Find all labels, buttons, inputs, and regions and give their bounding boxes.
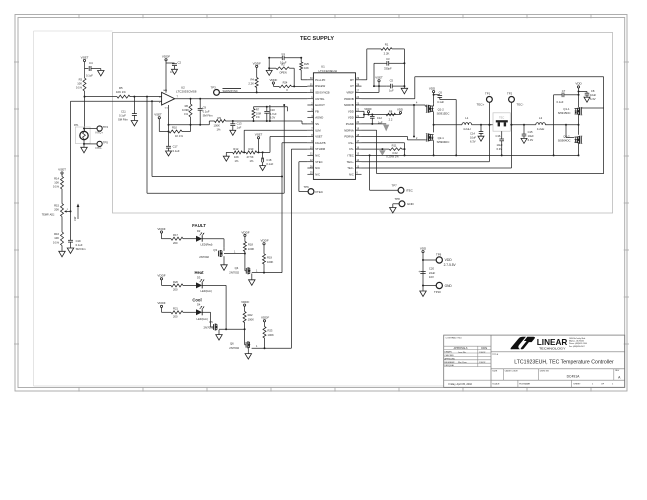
svg-text:200: 200 [173,315,178,319]
svg-text:N/C: N/C [315,166,320,170]
wire feedback node [169,124,210,126]
wire D3 to Q5 node [202,284,226,286]
svg-text:LED(Grn): LED(Grn) [201,289,213,293]
svg-text:C17: C17 [173,144,178,148]
resistor R11 [382,148,389,150]
svg-text:6.3V: 6.3V [590,97,596,101]
ground for C11 [131,121,138,127]
Linear Technology logo mark [511,337,526,350]
svg-text:SCALE: SCALE [492,382,500,385]
wire feedback run lower [146,97,148,194]
resistor R19 [263,254,266,264]
capacitor C7 [554,94,563,96]
svg-text:TEC: TEC [499,115,504,119]
svg-text:VDD: VDD [348,116,354,120]
label SHDN/SYNC [223,88,242,90]
svg-text:FAULTB: FAULTB [315,141,325,145]
CW arrow [77,206,79,220]
svg-text:TP4: TP4 [103,125,109,129]
svg-text:2.2: 2.2 [389,118,393,122]
svg-text:C5: C5 [390,79,394,83]
svg-text:N/C: N/C [315,154,320,158]
svg-text:ENGINEER: ENGINEER [445,362,456,364]
svg-text:+: + [418,270,420,274]
junction R6 top [190,98,192,100]
ground for C20 [420,291,427,297]
capacitor C13 [232,120,234,122]
svg-text:RSLEW: RSLEW [315,84,325,88]
page frame inner border [18,18,625,388]
svg-text:C14: C14 [470,131,475,135]
diode D3 LED green [196,282,202,288]
svg-text:TP6: TP6 [304,185,310,189]
svg-text:6.3V: 6.3V [528,138,534,142]
svg-text:C4: C4 [89,61,93,65]
svg-text:0.1uF: 0.1uF [86,73,93,77]
svg-text:Milpitas, CA 95035: Milpitas, CA 95035 [569,340,584,343]
svg-text:VDDF: VDDF [241,300,249,304]
wire TEC- line [362,167,512,169]
svg-text:10uF: 10uF [590,93,596,97]
svg-text:DC491A: DC491A [567,375,581,379]
power VDDF (U1) [367,111,369,113]
svg-text:2N7002: 2N7002 [199,255,209,259]
svg-text:VDD: VDD [420,246,427,250]
svg-text:C18: C18 [266,158,271,162]
svg-text:OPEN: OPEN [279,70,286,74]
svg-text:TP7: TP7 [392,184,398,188]
transistor Q1-1 [580,108,582,115]
wire Q5 source [218,330,220,335]
test point TP6 [308,189,314,195]
svg-text:LED(Red): LED(Red) [201,242,213,246]
svg-text:R11: R11 [392,144,397,148]
wire RT1 bottom / TP5 [83,140,85,144]
svg-text:VSET: VSET [154,112,162,116]
wire Q4 gate riser [244,254,246,271]
svg-text:C10: C10 [270,108,275,112]
svg-text:ITEC: ITEC [347,154,353,158]
svg-text:TP1: TP1 [485,92,491,96]
wire Q6 drain node [252,347,292,349]
wire C6 return [455,100,457,156]
svg-text:SM Film: SM Film [203,113,214,117]
svg-text:SHEET: SHEET [573,383,581,385]
svg-text:R10: R10 [172,126,177,130]
svg-text:TECHNOLOGY: TECHNOLOGY [539,347,566,351]
ground for C18 [260,166,266,171]
svg-text:C6: C6 [439,90,443,94]
node A junction [84,96,86,98]
op-amp U2 [162,92,175,105]
ground for C8 [584,97,590,102]
svg-text:0.1uF: 0.1uF [76,243,83,247]
svg-text:10K 1%: 10K 1% [116,90,126,94]
transistor Q3 [217,251,219,257]
ground for C15 [521,138,527,143]
resistor R8 [386,113,395,116]
wire R21 to D4 [183,311,196,313]
wire switch node left [433,112,435,132]
ground for RT1 [83,144,85,147]
wire Q6 source [247,348,249,354]
svg-text:TEMP. ADJ.: TEMP. ADJ. [42,213,56,216]
ground for Q6 [245,354,252,360]
wire ILIM riser [243,130,245,152]
capacitor C19 [68,239,73,241]
svg-text:1K 1%: 1K 1% [175,134,184,138]
transistor Q4 [245,268,247,274]
transistor Q2-2 [580,137,582,144]
wire RT1 to node A [84,97,86,132]
svg-text:10uF: 10uF [470,135,476,139]
ground for C17 [166,151,172,156]
ground for C13 [230,130,236,135]
svg-text:R2: R2 [281,62,285,66]
TEC module box [493,113,510,131]
svg-text:0.1uF: 0.1uF [437,100,444,104]
wire R1/C3/C5 ground leg [403,49,405,86]
svg-text:VSET: VSET [375,76,383,80]
diode D2 LED red [196,236,202,242]
wire VSET to R3 [84,62,86,78]
svg-text:D2: D2 [197,229,201,233]
svg-text:VDDF: VDDF [157,274,165,278]
wire R2 to R24 node [289,67,294,69]
wire R7/C10 top to FB [254,106,288,108]
ground for C5 [401,88,408,94]
capacitor C16 [501,131,503,139]
svg-text:VDD: VDD [445,258,453,262]
capacitor C10 [266,120,268,122]
svg-text:C15: C15 [528,130,533,134]
svg-text:TP9: TP9 [436,252,442,256]
wire PGND [362,123,387,125]
wire C7 return [553,95,555,156]
svg-text:RT: RT [350,78,354,82]
svg-text:D3: D3 [197,276,201,280]
resistor R25 [300,62,303,70]
test point TP3 [214,90,220,96]
resistor R4 [255,78,258,88]
svg-text:TP5: TP5 [103,141,109,145]
svg-text:LTC2053CMS8: LTC2053CMS8 [176,90,197,94]
svg-text:100K: 100K [268,333,274,337]
svg-text:CS+: CS+ [348,141,354,145]
svg-text:R25: R25 [304,62,309,66]
wire NDRVB to Q1-2 gate [362,104,426,106]
wire RT pin to R1 [362,79,367,81]
svg-text:NTC-: NTC- [96,146,103,150]
capacitor C9 [199,99,201,109]
svg-text:200: 200 [173,288,178,292]
schematic sheet faint border [33,31,35,386]
capacitor C11 [133,97,135,114]
svg-text:TP8: TP8 [395,197,401,201]
svg-text:Cool: Cool [192,298,201,303]
svg-text:VSET: VSET [81,55,89,59]
svg-text:10M: 10M [256,111,261,115]
svg-text:1/10/02: 1/10/02 [479,362,485,364]
svg-text:VTHRM: VTHRM [315,147,326,151]
svg-text:4.2uH: 4.2uH [463,127,470,131]
svg-text:C3: C3 [386,57,390,61]
ground for C4 [98,71,105,77]
svg-text:R22: R22 [248,313,253,317]
svg-text:VDDF: VDDF [261,239,269,243]
svg-text:TEC+: TEC+ [477,103,485,107]
svg-text:0.02: 0.02 [392,151,398,155]
wire PDRVB top route [362,98,415,100]
transistor Q2-1 [426,134,428,141]
svg-text:VDDF: VDDF [261,316,269,320]
wire VSET to R14 [61,174,63,176]
svg-text:R17: R17 [173,233,178,237]
wire R20 to D3 [183,284,196,286]
svg-text:0.1%: 0.1% [76,85,83,89]
wire TP3 to SD/SYNCB pin [219,91,307,93]
svg-text:R24: R24 [283,80,288,84]
wire L1 to TEC [472,124,493,126]
svg-text:APPROVED: APPROVED [445,357,456,360]
svg-text:Si5904DC: Si5904DC [437,140,450,144]
wire VTEC to TP6 [299,161,308,163]
svg-text:R23: R23 [268,328,273,332]
title block right grid [491,351,625,353]
resistor R18 [243,242,246,252]
ground for R16 [61,246,63,252]
svg-text:VDDF: VDDF [241,230,249,234]
svg-text:June Wu: June Wu [458,352,466,354]
svg-text:GND: GND [407,202,415,206]
svg-text:10K: 10K [77,81,82,85]
svg-text:10K: 10K [54,181,59,185]
svg-text:GND: GND [445,284,453,288]
wire TEC+ line [362,161,490,163]
resistor R22 [243,312,246,323]
wire R3 to node [84,91,86,97]
svg-text:10uF: 10uF [528,134,534,138]
svg-text:R1: R1 [385,42,389,46]
svg-text:REV: REV [615,370,620,372]
svg-text:CHECKED: CHECKED [445,355,455,357]
svg-text:DES/QUAL: DES/QUAL [445,364,455,367]
svg-text:0.1uF: 0.1uF [557,100,564,104]
svg-text:2.2K: 2.2K [248,82,254,86]
svg-text:R9: R9 [218,116,222,120]
svg-text:R21: R21 [173,307,178,311]
wire Q2-1 source [433,141,435,156]
capacitor C8 [579,91,588,93]
svg-text:C1: C1 [281,52,285,56]
wire TP8 to ground [393,203,399,205]
svg-text:PLLLPF: PLLLPF [315,78,325,82]
ground for Q4 [249,280,256,286]
test point TP2 [509,97,515,103]
resistor R14 [61,177,64,190]
svg-text:D4: D4 [197,303,201,307]
svg-text:NDRVA: NDRVA [344,128,354,132]
svg-text:Q3: Q3 [213,248,217,252]
diode D4 LED green [196,309,202,315]
svg-text:VTEC: VTEC [315,160,322,164]
test point TP10 [422,285,424,287]
svg-text:LTC1923EUH, TEC Temperature Co: LTC1923EUH, TEC Temperature Controller [514,360,614,366]
wire op-amp output [175,98,308,100]
svg-text:330pF: 330pF [384,66,392,70]
svg-text:0.1uF: 0.1uF [203,109,210,113]
wire Q6 gate riser [244,329,246,345]
svg-text:FAULT: FAULT [192,223,206,228]
resistor R12 [226,151,232,153]
wire R14 to R15 [61,189,63,204]
wire gate tie vertical [413,105,415,137]
capacitor C4 [85,68,89,70]
wire PDRVA to Q2-1 gate [362,136,408,138]
capacitor C12 [371,114,373,116]
svg-text:100K: 100K [248,317,254,321]
thermistor RT1 [75,127,90,144]
ground TP8 [390,208,397,214]
wire NDRVA bottom route [362,129,377,131]
svg-text:Wai Chan: Wai Chan [458,362,467,364]
svg-text:R13: R13 [249,147,254,151]
svg-text:VDDF: VDDF [253,61,261,65]
svg-text:RT1: RT1 [74,124,79,127]
capacitor C18 [262,152,264,159]
svg-text:R14: R14 [54,177,59,181]
svg-text:C13: C13 [237,121,242,125]
capacitor C17 [168,132,170,147]
svg-text:CS-: CS- [349,147,354,151]
svg-text:0.1uF: 0.1uF [266,162,273,166]
svg-text:Heat: Heat [194,270,204,275]
svg-text:Fax: (408)434-0507: Fax: (408)434-0507 [569,346,585,348]
svg-text:10K: 10K [54,236,59,240]
svg-text:ITEC: ITEC [406,189,414,193]
svg-text:6.3V: 6.3V [270,116,276,120]
svg-text:PDRVB: PDRVB [344,97,354,101]
svg-text:9.09K: 9.09K [182,108,189,112]
svg-text:ILIM: ILIM [315,128,321,132]
svg-text:200: 200 [173,241,178,245]
test point TP8 [399,201,405,207]
IC U1 pins [307,79,313,81]
svg-text:CONTRACT NO.: CONTRACT NO. [446,337,463,340]
wire FAULTB vertical [282,142,307,144]
wiper of R15 [64,210,67,212]
svg-text:10V: 10V [429,275,434,279]
svg-text:20K: 20K [54,208,59,212]
svg-text:1630 McCarthy Blvd.: 1630 McCarthy Blvd. [569,337,586,340]
svg-text:VSET: VSET [255,132,263,136]
svg-text:0.1%: 0.1% [53,241,60,245]
svg-text:VDD: VDD [429,86,436,90]
svg-text:100K: 100K [248,247,254,251]
svg-text:Q6: Q6 [230,341,234,345]
wire VDD pins tie [362,110,365,112]
svg-text:PDRVA: PDRVA [344,135,354,139]
test point TP7 [398,187,404,193]
svg-text:TEC-: TEC- [347,166,354,170]
svg-text:2N7002: 2N7002 [229,270,239,274]
svg-text:SM Film: SM Film [76,247,87,251]
wire EAOUT vertical [269,120,271,122]
title block grid [444,335,625,387]
svg-text:TP10: TP10 [434,290,441,294]
resistor R21 [171,311,183,314]
resistor R16 [61,232,64,246]
svg-text:Si5904DC: Si5904DC [558,138,571,142]
svg-text:1uF: 1uF [237,125,242,129]
wire VTHRM vertical [291,148,307,150]
svg-text:VDDF: VDDF [162,55,170,59]
svg-text:AGND: AGND [315,116,323,120]
svg-text:PGND: PGND [346,122,354,126]
svg-text:TEC+: TEC+ [347,160,355,164]
wire inverting input long vertical [70,101,72,240]
ground for R12 [223,156,229,161]
svg-text:TEC-: TEC- [517,103,524,107]
svg-text:0.1%: 0.1% [53,185,60,189]
svg-text:CW: CW [73,216,77,221]
resistor R17 [171,237,183,240]
ground for C19 [67,248,74,254]
svg-text:1%: 1% [184,112,188,116]
wire R15 to R16 [61,217,63,233]
resistor R24 [273,85,279,87]
svg-text:10K: 10K [234,155,239,159]
wire switch node right [578,114,580,134]
svg-text:Si5915DC: Si5915DC [437,111,450,115]
svg-text:DRAWN: DRAWN [445,351,453,354]
svg-text:C12: C12 [377,116,382,120]
svg-text:U1: U1 [321,65,325,69]
svg-text:SM Film: SM Film [118,118,129,122]
junction R12/R13 [243,151,245,153]
svg-text:6.3V: 6.3V [497,147,503,151]
svg-text:1%: 1% [250,159,254,163]
test point TP9 [422,259,424,261]
resistor R13 [246,151,257,154]
resistor R9 [208,121,210,125]
ground for Q3 [221,265,228,271]
wire Q2-2 source [578,143,580,155]
svg-text:TP2: TP2 [507,92,513,96]
svg-text:VREF: VREF [346,91,354,95]
svg-text:EAOUT: EAOUT [315,103,325,107]
ground for Q5 [216,335,223,341]
svg-text:VTEC: VTEC [315,190,324,194]
resistor R23 [263,327,266,339]
transistor Q5 [212,324,214,330]
svg-text:R12: R12 [233,147,238,151]
svg-text:FB: FB [315,109,319,113]
potentiometer R15 [61,204,64,217]
ground PGND gray arrow [383,125,389,132]
svg-text:N/C: N/C [349,172,354,176]
svg-text:R20: R20 [173,280,178,284]
capacitor C2 [166,62,175,64]
wire CS- [362,148,383,150]
svg-text:CAGE CODE: CAGE CODE [505,370,519,373]
wire TEC right to L2 [510,124,536,126]
svg-text:Q5: Q5 [209,320,213,324]
svg-text:VSET: VSET [315,135,323,139]
ground CS- gray arrow [379,150,386,156]
svg-text:2N7002: 2N7002 [229,346,239,350]
svg-text:1%: 1% [235,159,239,163]
